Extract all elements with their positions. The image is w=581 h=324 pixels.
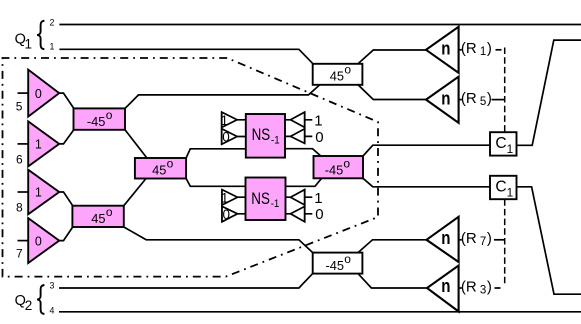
wire stub input 8 — [18, 191, 29, 193]
svg-text:5: 5 — [16, 100, 23, 114]
wire BS-45b upper output to detector R7 — [358, 240, 427, 253]
svg-text:1: 1 — [221, 190, 229, 205]
svg-text:4: 4 — [50, 306, 55, 316]
ancilla input triangles NS1: vertical bus — [221, 112, 223, 145]
svg-text:0: 0 — [315, 206, 323, 223]
classical gate C1a — [490, 132, 517, 155]
NS-1 gate upper (U-NS1) — [246, 114, 285, 158]
svg-text:45: 45 — [330, 69, 344, 84]
svg-text:o: o — [167, 156, 174, 170]
svg-text:NS: NS — [251, 190, 270, 208]
svg-text:-45: -45 — [325, 162, 344, 177]
wire BS45t upper output to detector R1 — [358, 50, 426, 64]
svg-text:(R: (R — [461, 90, 477, 107]
svg-text:7: 7 — [480, 236, 486, 248]
tick R7 — [459, 239, 462, 241]
svg-text:(R: (R — [461, 278, 477, 295]
svg-text:): ) — [487, 90, 492, 107]
svg-text:0: 0 — [35, 234, 42, 248]
svg-text:2: 2 — [25, 298, 33, 313]
wire line 2 — [59, 24, 581, 26]
wire T1 to BS-45u — [59, 130, 74, 144]
dashed bus upper to C1 — [504, 48, 506, 133]
ancilla output triangle 0 NS1 — [291, 129, 305, 144]
wire output ticks NS1 — [305, 120, 313, 137]
svg-text:45: 45 — [91, 211, 105, 226]
svg-text:(R: (R — [461, 40, 477, 57]
source triangle 1 (mode 6) — [28, 121, 59, 166]
svg-text:0: 0 — [315, 129, 323, 146]
wire NS1 to output triangles — [285, 120, 291, 137]
svg-text:1: 1 — [50, 42, 55, 52]
wire line 4 — [59, 311, 581, 313]
wire C1a to output — [517, 40, 581, 145]
wire C1b to output — [517, 187, 581, 294]
dashed bus lower from C1b — [504, 199, 506, 286]
svg-text:2: 2 — [50, 17, 55, 27]
wire output ticks NS2 — [305, 197, 313, 214]
svg-text:n: n — [441, 88, 450, 108]
svg-text:1: 1 — [314, 190, 322, 207]
svg-text:-45: -45 — [87, 114, 106, 129]
svg-text:45: 45 — [152, 162, 166, 177]
ancilla output triangle 1 NS1 — [291, 112, 305, 127]
svg-text:n: n — [441, 39, 450, 59]
wire line 1 into BS1 — [59, 49, 313, 64]
wire stub input 7 — [18, 240, 29, 242]
svg-text:o: o — [344, 63, 351, 77]
svg-text:n: n — [441, 228, 450, 248]
detector n (R3) — [427, 266, 459, 312]
svg-text:1: 1 — [314, 113, 322, 130]
ancilla |1> input triangle NS1 — [222, 112, 237, 127]
wire stub input 5 — [18, 92, 29, 94]
ancilla |0> input triangle NS2 — [222, 206, 238, 221]
wire line 3 into BS6 — [59, 273, 313, 288]
svg-text:1: 1 — [480, 46, 486, 58]
source triangle 1 (mode 8) — [28, 170, 59, 215]
svg-text:-1: -1 — [271, 135, 280, 147]
svg-text:1: 1 — [35, 138, 42, 152]
ancilla |1> input triangle NS2 — [222, 190, 238, 205]
svg-text:o: o — [344, 252, 351, 266]
beamsplitter 45 lower (pink) — [72, 206, 123, 227]
svg-text:o: o — [106, 108, 113, 122]
wire T2 to BS45l — [59, 192, 72, 206]
vertical bus right NS2 — [304, 190, 306, 222]
svg-text:): ) — [487, 278, 492, 295]
wire BS-45u upper output to BS45t — [125, 85, 320, 108]
dash R7 to bus — [494, 239, 504, 241]
detector n (R5) — [426, 77, 459, 123]
svg-text:o: o — [106, 205, 113, 219]
tick R3 — [459, 287, 462, 289]
wire BS45l lower output to BS-45b — [124, 227, 313, 253]
wire T3 to BS45l — [59, 227, 72, 241]
wire NS1 output to BS-45r — [285, 149, 321, 156]
svg-text:NS: NS — [252, 126, 271, 144]
source triangle 0 (mode 5) — [28, 70, 59, 117]
svg-text:0: 0 — [223, 207, 231, 222]
brace Q1 — [37, 21, 44, 50]
wire ancilla in rails NS1 — [237, 120, 246, 137]
tick R1 — [459, 49, 462, 51]
dash R5 to bus — [492, 99, 505, 101]
svg-text:-45: -45 — [326, 258, 345, 273]
wire ancilla in rails NS2 — [238, 197, 246, 214]
NS-1 gate lower (U-NS2) — [246, 178, 286, 221]
svg-text:-1: -1 — [271, 198, 280, 210]
beamsplitter -45 right (pink) — [314, 156, 364, 178]
tick R5 — [459, 99, 462, 101]
beamsplitter -45 upper (pink) — [74, 108, 126, 129]
wire BS-45r upper output to C1a — [363, 145, 490, 156]
svg-text:): ) — [487, 40, 492, 57]
svg-text:1: 1 — [221, 113, 229, 128]
wire BS-45u lower output to BS45c — [125, 130, 147, 158]
wire NS2 output to BS-45r — [286, 178, 322, 186]
wire NS2 to output triangles — [286, 197, 291, 214]
dash R3 to bus — [495, 287, 501, 289]
svg-text:): ) — [487, 230, 492, 247]
svg-text:5: 5 — [480, 96, 486, 108]
svg-text:o: o — [343, 156, 350, 170]
svg-text:0: 0 — [35, 87, 42, 101]
svg-text:3: 3 — [480, 284, 486, 296]
svg-text:6: 6 — [16, 153, 23, 167]
wire stub input 6 — [18, 143, 29, 145]
ancilla output triangle 1 NS2 — [291, 190, 305, 205]
wire BS45t lower output to detector R5 — [358, 85, 426, 100]
svg-text:1: 1 — [35, 186, 42, 200]
source triangle 0 (mode 7) — [28, 218, 59, 263]
beamsplitter 45 top (white) — [313, 64, 363, 85]
wire BS-45b lower output to detector R3 — [358, 274, 427, 288]
dash R1 to bus — [496, 49, 502, 51]
svg-text:7: 7 — [16, 247, 23, 261]
wire BS45c upper output to NS1 rail — [186, 149, 246, 158]
svg-text:(R: (R — [461, 230, 477, 247]
svg-text:8: 8 — [16, 200, 23, 214]
ancilla |0> input triangle NS1 — [222, 129, 237, 144]
vertical bus right NS1 — [304, 112, 306, 143]
beamsplitter 45 center (pink) — [135, 158, 186, 179]
detector n (R7) — [427, 217, 459, 262]
wire BS45c lower output to NS2 rail — [186, 179, 245, 187]
svg-text:3: 3 — [50, 281, 55, 291]
beamsplitter -45 bottom (white) — [313, 253, 363, 274]
detector n (R1) — [426, 27, 459, 73]
dash-dot boundary box — [3, 58, 379, 277]
svg-text:0: 0 — [222, 129, 230, 144]
wire T0 to BS-45u — [59, 93, 74, 108]
classical gate C1b — [490, 176, 517, 199]
svg-text:n: n — [441, 276, 450, 296]
wire BS45l upper output to BS45c — [124, 179, 146, 206]
wire BS-45r lower output to C1b — [363, 178, 490, 187]
brace Q2 — [37, 285, 44, 314]
svg-text:1: 1 — [25, 36, 33, 51]
ancilla input triangles NS2: vertical bus — [221, 190, 223, 222]
ancilla output triangle 0 NS2 — [291, 206, 305, 221]
